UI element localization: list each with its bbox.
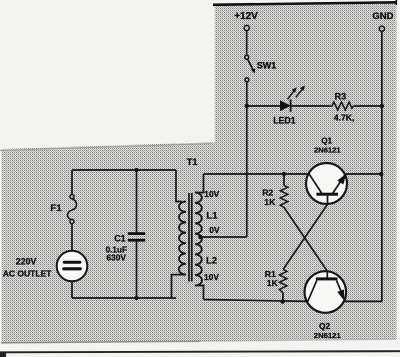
svg-text:Q2: Q2 [319, 321, 331, 331]
svg-text:630V: 630V [106, 253, 126, 263]
svg-text:4.7K,: 4.7K, [334, 113, 355, 123]
svg-text:F1: F1 [50, 203, 62, 214]
svg-text:0V: 0V [209, 225, 220, 235]
svg-text:1K: 1K [267, 278, 279, 288]
svg-text:10V: 10V [204, 272, 219, 282]
svg-text:L2: L2 [206, 256, 217, 267]
svg-text:+12V: +12V [234, 11, 258, 22]
svg-text:2N6121: 2N6121 [314, 146, 341, 155]
svg-text:Q1: Q1 [321, 137, 332, 146]
svg-text:AC OUTLET: AC OUTLET [3, 269, 52, 279]
svg-text:GND: GND [372, 11, 393, 22]
svg-text:220V: 220V [16, 256, 37, 266]
svg-text:1K: 1K [264, 197, 276, 207]
svg-text:R3: R3 [335, 91, 347, 101]
svg-text:2N6121: 2N6121 [314, 331, 342, 340]
svg-text:SW1: SW1 [257, 61, 277, 71]
svg-text:10V: 10V [204, 189, 219, 199]
svg-text:T1: T1 [187, 157, 198, 167]
svg-text:LED1: LED1 [273, 115, 296, 125]
svg-text:C1: C1 [114, 233, 126, 243]
svg-text:L1: L1 [206, 210, 218, 221]
